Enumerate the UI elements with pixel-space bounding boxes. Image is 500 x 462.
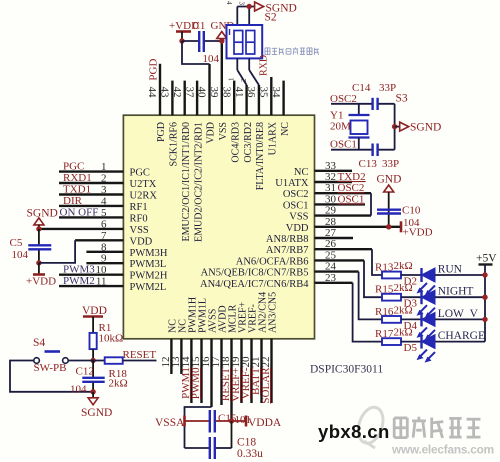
wire VSSA to C15 — [185, 420, 210, 422]
junction +5V at NIGHT row — [482, 295, 487, 300]
wire R15 to LED D3 — [401, 296, 422, 298]
svg-text:RF1: RF1 — [130, 202, 148, 213]
svg-text:2: 2 — [101, 173, 107, 185]
watermark swoosh — [354, 404, 387, 448]
svg-text:DSPIC30F3011: DSPIC30F3011 — [310, 364, 383, 376]
capacitor C13 33P — [359, 144, 400, 171]
svg-text:33: 33 — [325, 160, 337, 172]
capacitor C5 104 — [10, 237, 52, 261]
svg-text:2kΩ: 2kΩ — [394, 304, 413, 316]
svg-text:32: 32 — [325, 171, 336, 183]
resistor R13 2k&#937; — [375, 260, 413, 278]
junction at S2 pin 3 / SGND wire — [247, 4, 252, 9]
svg-text:3: 3 — [238, 2, 246, 6]
svg-text:PWM2: PWM2 — [63, 275, 95, 287]
pin 31 (OSC2) right wire, number and label — [283, 182, 371, 200]
pin 27 (AN8/RB8) right wire, number and label — [266, 227, 353, 245]
wire LED D4 to +5V rail — [435, 318, 485, 320]
svg-text:1: 1 — [101, 161, 107, 173]
svg-text:AN4/QEA/IC7/CN6/RB4: AN4/QEA/IC7/CN6/RB4 — [200, 279, 309, 290]
svg-text:TXD2: TXD2 — [338, 171, 366, 183]
junction at +VDD / C1 node — [179, 38, 184, 43]
svg-text:EMUD2/OC2/IC2/INT2/RD1: EMUD2/OC2/IC2/INT2/RD1 — [193, 122, 204, 242]
svg-text:10kΩ: 10kΩ — [99, 333, 124, 345]
wire C14 to SGND rail — [379, 104, 395, 127]
wire pin6 node down to C5 — [38, 229, 40, 245]
pin 32 (U1ATX) right wire, number and label — [275, 171, 365, 189]
pin PWM114 (PWM1H) bottom stub and label — [180, 297, 199, 403]
wire node to pin 7 VDD — [39, 240, 75, 263]
wire S4 right contact to node — [68, 360, 93, 362]
pin 25 (AN6/OCFA/RB6) right wire, number and label — [236, 249, 364, 267]
svg-text:SCK1/RF6: SCK1/RF6 — [169, 122, 180, 166]
svg-text:S3: S3 — [396, 93, 408, 105]
junction at R1/R18/S4/C12 node — [90, 358, 95, 363]
svg-text:0.33u: 0.33u — [237, 448, 263, 460]
pin PWM015 (PWM1L) bottom stub and label — [190, 298, 209, 403]
svg-text:42: 42 — [171, 87, 183, 98]
svg-text:VDDA: VDDA — [248, 417, 282, 429]
capacitor C14 33P — [352, 82, 396, 110]
pin 39 (VSS) top stub and number — [208, 41, 229, 140]
svg-text:+VDD: +VDD — [26, 276, 56, 288]
svg-text:ybx8.cn: ybx8.cn — [318, 421, 390, 442]
pin 16 (AVSS) bottom stub and label — [200, 309, 219, 407]
LED D2 — [404, 268, 436, 296]
svg-text:PGC: PGC — [63, 161, 84, 173]
pin 9 (PWM3L) left wire, number and label — [86, 253, 166, 271]
switch lever S2-1 to pin 41 — [237, 58, 246, 85]
pin 35 (U1ARX) top stub and number — [258, 77, 279, 155]
svg-text:36: 36 — [245, 87, 257, 99]
svg-text:PWM3: PWM3 — [63, 264, 95, 276]
svg-text:RXD1: RXD1 — [63, 172, 92, 184]
switch lever S2-2 to pin 36 — [249, 58, 259, 85]
svg-text:33P: 33P — [382, 158, 399, 170]
wire pin31 to pin29 jog — [370, 193, 372, 215]
svg-text:C12: C12 — [76, 366, 94, 378]
wire LED D3 to +5V rail — [435, 296, 485, 298]
pin 37 (EMUD2/OC2/IC2/INT2/RD1) top stub and number — [183, 81, 204, 242]
capacitor C15 101 — [210, 410, 251, 433]
pin 1 (PGC) left wire, number and label — [59, 161, 150, 179]
svg-text:GND: GND — [377, 174, 402, 186]
svg-text:39: 39 — [208, 87, 220, 99]
pin VREF+19 (VREF+) bottom stub and label — [230, 301, 249, 403]
capacitor C1 104 (top) — [193, 20, 220, 65]
svg-text:LOW V: LOW V — [438, 308, 479, 320]
svg-text:VDD: VDD — [130, 236, 153, 247]
svg-text:NC: NC — [280, 122, 291, 136]
pin 4 (RF1) left wire, number and label — [59, 195, 148, 213]
svg-text:104: 104 — [12, 249, 29, 261]
svg-text:11: 11 — [96, 276, 107, 288]
svg-text:U1ATX: U1ATX — [275, 178, 309, 189]
DIP switch S2 body — [227, 12, 277, 59]
svg-text:24: 24 — [325, 261, 337, 273]
svg-text:S4: S4 — [33, 337, 45, 349]
svg-text:VSS: VSS — [289, 212, 308, 223]
junction at GND / C1 node — [219, 38, 224, 43]
svg-text:U1ARX: U1ARX — [268, 121, 279, 155]
svg-text:C5: C5 — [10, 237, 23, 249]
wire LED D5 to +5V rail — [435, 341, 485, 343]
svg-text:26: 26 — [325, 238, 337, 250]
pin SOLAR22 (AN3/CN5) bottom stub and label — [260, 292, 279, 404]
svg-text:2kΩ: 2kΩ — [394, 327, 413, 339]
svg-text:PWM3H: PWM3H — [130, 248, 168, 259]
svg-text:PWM2L: PWM2L — [130, 282, 167, 293]
svg-text:U2TX: U2TX — [130, 179, 157, 190]
svg-text:AN6/OCFA/RB6: AN6/OCFA/RB6 — [236, 256, 309, 267]
net label OSC2 with wire (crystal top) — [330, 93, 373, 105]
svg-text:4: 4 — [225, 1, 233, 5]
pin 44 (PGD) top stub and number — [146, 64, 167, 142]
power symbol SGND (crystal) — [395, 122, 442, 134]
svg-text:S2: S2 — [265, 12, 277, 24]
svg-text:30: 30 — [325, 193, 337, 205]
svg-text:AN3/CN5: AN3/CN5 — [268, 292, 279, 333]
svg-text:27: 27 — [325, 227, 337, 239]
crystal Y1 20M — [330, 104, 370, 150]
wire pin to R15 (vertical drop) — [364, 260, 382, 297]
svg-text:PWM3L: PWM3L — [130, 259, 167, 270]
power symbol SGND (reset circuit) — [81, 392, 112, 419]
svg-text:ON OFF: ON OFF — [60, 206, 99, 218]
svg-text:5: 5 — [101, 207, 107, 219]
svg-text:RXD: RXD — [259, 55, 270, 76]
pin 12 (NC) bottom stub and label — [160, 319, 179, 374]
pin 40 (VDD) top stub and number — [196, 64, 217, 144]
svg-text:+VDD: +VDD — [403, 227, 433, 239]
pin 7 (VDD) left wire, number and label — [75, 230, 153, 248]
watermark elecfans logo text — [394, 417, 480, 438]
resistor R18 2k&#937; — [93, 357, 128, 389]
svg-text:OSC1: OSC1 — [330, 139, 357, 151]
svg-text:FLTA/INT0/RE8: FLTA/INT0/RE8 — [255, 122, 266, 190]
power symbol +VDD (left) — [26, 263, 56, 288]
wire +VDD rail down to pin 40 VDD — [182, 41, 210, 64]
svg-text:RESET: RESET — [123, 349, 157, 361]
svg-text:35: 35 — [258, 87, 270, 99]
svg-text:37: 37 — [183, 87, 195, 99]
pin 13 (NC) bottom stub and label — [170, 319, 189, 374]
wire S4 left contact loop to bottom — [10, 361, 93, 392]
wire R17 to LED D5 — [401, 341, 422, 343]
wire R1 to junction — [92, 349, 94, 360]
capacitor C18 0.33u — [210, 437, 263, 461]
LED D3 — [404, 290, 436, 318]
pin 33 (NC) right wire, number and label — [294, 160, 352, 178]
IC U2 DSPIC30F3011 body — [123, 115, 314, 339]
svg-text:7: 7 — [101, 230, 107, 242]
pin 24 (AN5/QEB/IC8/CN7/RB5) right wire, number and label — [201, 261, 359, 279]
pin 43 (SCK1/RF6) top stub and number — [159, 81, 180, 167]
svg-text:OSC2: OSC2 — [283, 189, 309, 200]
svg-text:31: 31 — [325, 182, 336, 194]
svg-text:28: 28 — [325, 216, 337, 228]
svg-text:AN5/QEB/IC8/CN7/RB5: AN5/QEB/IC8/CN7/RB5 — [201, 268, 309, 279]
svg-text:OSC1: OSC1 — [283, 200, 309, 211]
net label RESET with wire — [123, 349, 157, 361]
svg-text:VDD: VDD — [206, 122, 217, 144]
ground symbol GND (top) — [211, 20, 235, 39]
pin 26 (AN7/RB7) right wire, number and label — [266, 238, 372, 256]
wire S2 top pins to SGND — [237, 7, 254, 26]
svg-text:OSC1: OSC1 — [338, 193, 365, 205]
junction +5V at RUN row — [482, 272, 487, 277]
svg-text:34: 34 — [270, 87, 282, 99]
svg-text:R15: R15 — [375, 284, 394, 296]
svg-text:2kΩ: 2kΩ — [394, 260, 413, 272]
svg-text:2: 2 — [240, 78, 248, 82]
pin 38 (OC4/RD3) top stub and number — [220, 81, 241, 163]
svg-text:AN8/RB8: AN8/RB8 — [266, 234, 309, 245]
svg-text:4: 4 — [101, 195, 107, 207]
svg-text:104: 104 — [70, 384, 87, 396]
pin 17 (AVDD) bottom stub and label — [210, 305, 229, 405]
switch S4 SW-PB — [33, 337, 68, 374]
svg-text:www.elecfans.com: www.elecfans.com — [391, 443, 494, 457]
LED D4 — [404, 312, 436, 340]
pin RESET18 (MCLR) bottom stub and label — [220, 304, 239, 421]
svg-text:6: 6 — [101, 218, 107, 230]
svg-text:C10: C10 — [402, 205, 421, 217]
svg-text:AN7/RB7: AN7/RB7 — [266, 245, 309, 256]
svg-text:PGC: PGC — [130, 168, 150, 179]
junction at C12/S4 bottom node — [90, 389, 95, 394]
svg-text:DIR: DIR — [63, 195, 83, 207]
svg-text:D5: D5 — [404, 342, 418, 354]
pin 5 (RF0) left wire, number and label — [59, 206, 148, 224]
net label OSC1 with wire (crystal bottom) — [330, 139, 373, 151]
junction at pin6 VSS node — [36, 226, 41, 231]
svg-text:R17: R17 — [375, 328, 394, 340]
svg-text:10: 10 — [96, 264, 108, 276]
svg-text:OC3/RD2: OC3/RD2 — [243, 122, 254, 163]
wire pin16 AVSS down-left rail — [185, 407, 212, 448]
svg-text:23: 23 — [325, 272, 337, 284]
svg-text:U2RX: U2RX — [130, 191, 158, 202]
pin 23 (AN4/QEA/IC7/CN6/RB4) right wire, number and label — [200, 272, 353, 290]
net label VDDA with tick — [246, 416, 282, 430]
resistor R17 2k&#937; — [375, 327, 413, 345]
junction at crystal SGND node — [392, 124, 397, 129]
svg-text:PGD: PGD — [156, 122, 167, 142]
svg-text:9: 9 — [101, 253, 107, 265]
pin 29 (VSS) right wire, number and label — [289, 205, 371, 223]
wire C18 bottom row — [185, 421, 232, 448]
capacitor C10 104 — [377, 205, 421, 230]
svg-text:43: 43 — [159, 87, 171, 99]
svg-text:38: 38 — [220, 87, 232, 99]
junction at pin28 VDD node — [386, 224, 391, 229]
junction at +VDD / pin7 node — [36, 260, 41, 265]
resistor R16 2k&#937; — [375, 304, 413, 322]
pin VREF-20 (VREF-) bottom stub and label — [240, 304, 259, 403]
wire C13 to SGND rail — [379, 127, 395, 150]
pin 8 (PWM3H) left wire, number and label — [86, 241, 167, 258]
power rail +5V — [476, 253, 497, 342]
wire C5 to +VDD node — [38, 250, 40, 263]
wire +VDD node to C1 left plate — [182, 40, 199, 42]
junction at pin18 rail / VDDA wire — [229, 418, 234, 423]
pin 6 (VSS) left wire, number and label — [39, 218, 149, 236]
svg-text:20M: 20M — [330, 121, 351, 133]
wire LED D2 to +5V rail — [435, 274, 485, 276]
svg-text:25: 25 — [325, 249, 337, 261]
svg-text:SGND: SGND — [27, 208, 58, 220]
svg-text:RF0: RF0 — [130, 213, 148, 224]
svg-text:NIGHT: NIGHT — [438, 286, 474, 298]
pin 41 (OC3/RD2) top stub and number — [233, 85, 254, 163]
svg-text:EMUC2/OC1/IC1/INT1/RD0: EMUC2/OC1/IC1/INT1/RD0 — [181, 122, 192, 241]
ground symbol GND (right) — [377, 174, 402, 229]
svg-text:OSC2: OSC2 — [338, 182, 365, 194]
svg-text:VDD: VDD — [286, 223, 309, 234]
svg-text:C1: C1 — [193, 20, 206, 32]
svg-text:2kΩ: 2kΩ — [394, 282, 413, 294]
power symbol VDD (reset circuit) — [82, 305, 107, 333]
pin 28 (VDD) right wire, number and label — [286, 216, 401, 234]
wire R16 to LED D4 — [401, 318, 422, 320]
svg-text:OC4/RD3: OC4/RD3 — [230, 122, 241, 163]
wire R13 to LED D2 — [401, 274, 422, 276]
pin 30 (OSC1) right wire, number and label — [283, 193, 365, 211]
pin 42 (EMUC2/OC1/IC1/INT1/RD0) top stub and number — [171, 81, 192, 242]
svg-text:PGD: PGD — [148, 59, 160, 81]
pin 34 (NC) top stub and number — [270, 81, 291, 136]
svg-text:C14: C14 — [352, 82, 371, 94]
wire C15 to VDDA — [216, 420, 246, 422]
svg-text:SW-PB: SW-PB — [34, 362, 67, 374]
svg-text:41: 41 — [233, 87, 245, 98]
pin 10 (PWM2H) left wire, number and label — [59, 264, 168, 282]
junction +5V at LOW V row — [482, 317, 487, 322]
annotation: four control mode selection (Chinese) — [265, 47, 319, 54]
svg-text:2kΩ: 2kΩ — [109, 378, 128, 390]
power symbol +VDD (right, pin 28) — [401, 221, 433, 238]
wire pin to R16 (vertical drop) — [359, 272, 382, 320]
wire pin to R17 (vertical drop) — [353, 283, 382, 342]
svg-text:VSS: VSS — [130, 225, 149, 236]
svg-text:8: 8 — [101, 241, 107, 253]
resistor R15 2k&#937; — [375, 282, 413, 300]
capacitor C12 104 — [70, 361, 105, 396]
svg-text:CHARGE: CHARGE — [438, 330, 485, 342]
svg-text:R16: R16 — [375, 306, 394, 318]
pin 2 (U2TX) left wire, number and label — [59, 172, 157, 190]
svg-text:29: 29 — [325, 205, 337, 217]
wire C1 right plate to GND node — [205, 40, 222, 42]
svg-text:1: 1 — [228, 77, 236, 81]
power symbol +VDD (top) — [169, 20, 199, 41]
net label VSSA with tick — [155, 416, 185, 430]
pin 3 (U2RX) left wire, number and label — [59, 184, 157, 202]
svg-text:VSSA: VSSA — [155, 417, 185, 429]
pin 36 (FLTA/INT0/RE8) top stub and number — [245, 85, 266, 190]
svg-text:3: 3 — [101, 184, 107, 196]
svg-text:NC: NC — [294, 167, 309, 178]
power symbol SGND (top right of S2) — [255, 2, 297, 15]
resistor R1 10k&#937; — [90, 322, 124, 349]
svg-text:RUN: RUN — [438, 264, 463, 276]
svg-text:+5V: +5V — [476, 253, 497, 265]
pin BATT21 (AN2/CN4) bottom stub and label — [250, 292, 269, 403]
svg-text:SOLAR22: SOLAR22 — [260, 357, 272, 404]
svg-text:SGND: SGND — [410, 122, 441, 134]
svg-text:C13: C13 — [359, 158, 378, 170]
svg-text:TXD1: TXD1 — [63, 184, 91, 196]
wire C12 to SGND — [92, 383, 94, 392]
svg-text:33P: 33P — [379, 82, 396, 94]
LED D5 — [404, 335, 436, 363]
power symbol SGND (left) — [27, 208, 58, 229]
svg-text:40: 40 — [196, 87, 208, 99]
svg-text:R13: R13 — [375, 262, 394, 274]
wire pin to R13 (vertical drop) — [372, 249, 382, 275]
pin 11 (PWM2L) left wire, number and label — [59, 275, 166, 293]
svg-text:C18: C18 — [237, 437, 256, 449]
svg-text:VSS: VSS — [218, 122, 229, 140]
svg-text:SGND: SGND — [81, 407, 112, 419]
svg-text:44: 44 — [146, 87, 158, 99]
svg-text:PWM2H: PWM2H — [130, 271, 168, 282]
